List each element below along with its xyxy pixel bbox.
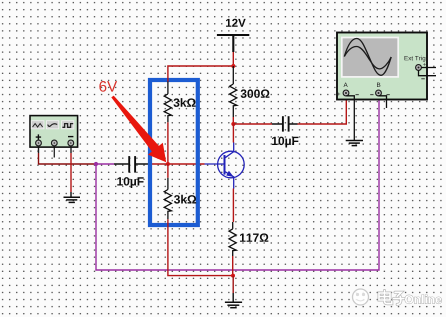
scope screen — [342, 38, 398, 77]
wire: R2 bottom to emitter ground rail (red) — [168, 219, 233, 275]
FG plus label — [36, 134, 41, 139]
wire: 12V to R1 top (red) — [168, 66, 233, 82]
wire: cap to base junction (red) — [149, 163, 168, 165]
resistor R1 zigzag — [164, 94, 171, 122]
function generator XFG1 body — [30, 116, 78, 148]
wire: emitter down to R4 (red) — [232, 189, 234, 223]
wire: junction to output cap (red) — [233, 123, 272, 125]
FG button sine wave — [47, 121, 59, 129]
label R4 value 117 — [240, 233, 268, 241]
scope Ext Trig stubs — [419, 68, 437, 76]
scope Ext terminal — [416, 65, 422, 71]
wire: FG minus to ground (red) — [70, 146, 72, 153]
watermark logo — [353, 289, 369, 305]
wire: R3 to collector junction (red) — [232, 117, 234, 124]
wire: junction to ground (black) — [232, 276, 234, 293]
FG minus label — [68, 136, 73, 138]
watermark text: white pass — [379, 291, 406, 305]
label C2 value 10uF — [272, 137, 298, 148]
resistor R3 300 ohm — [230, 66, 237, 117]
scope label A — [344, 83, 348, 87]
scope terminal A — [343, 90, 349, 96]
capacitor C1 10uF input — [114, 156, 149, 173]
wire: scope A minus to ground (black) — [346, 96, 354, 141]
ground under function generator — [64, 197, 81, 202]
node: emitter ground junction dot — [231, 274, 235, 278]
wire: FG middle stub — [53, 146, 55, 158]
power VCC 12V symbol — [217, 35, 249, 52]
watermark text: outline pass — [379, 291, 406, 305]
wire: cap to scope A (red) — [298, 98, 347, 124]
scope label Ext Trig — [405, 56, 427, 62]
FG terminal - — [68, 140, 74, 146]
wire: R1 bottom to base junction (red) — [167, 122, 169, 164]
label R2 value 3k — [174, 195, 196, 204]
resistor R4 117 ohm — [229, 222, 236, 256]
node: purple junction on input rail — [94, 162, 98, 166]
ground under emitter — [225, 302, 242, 307]
blue highlight box — [150, 80, 198, 225]
node: base junction dot — [166, 162, 170, 166]
scope +/- marks — [337, 93, 340, 96]
annotation 6V — [99, 81, 117, 92]
wire: R4 to ground junction (red) — [232, 256, 234, 276]
FG terminal common — [51, 140, 57, 146]
transistor Q1 — [205, 143, 245, 189]
wire: base junction down to R2 (red) — [167, 164, 169, 178]
wire: junction down to collector (red) — [232, 124, 234, 143]
label R1 value 3k — [173, 98, 195, 107]
wire: base rail junction to transistor base (red) — [168, 163, 205, 165]
scope trace B — [344, 46, 391, 68]
wire: VCC lead to junction (red) — [232, 52, 234, 66]
FG button triangle wave — [31, 121, 44, 129]
scope label B — [377, 83, 380, 87]
wire: purple net B-channel — [96, 98, 379, 270]
ground under scope — [346, 141, 363, 146]
label C1 value 10uF — [117, 177, 143, 188]
annotation red arrow — [111, 96, 166, 163]
node: VCC junction dot — [231, 64, 235, 68]
wire: scope B minus stub — [379, 96, 387, 108]
oscilloscope XSC1 body — [337, 33, 427, 100]
capacitor C2 10uF output — [272, 116, 298, 131]
scope terminal B — [376, 90, 382, 96]
resistor R2 3k bottom: leads and zigzag — [164, 178, 171, 219]
wire: input rail FG+ down and right (dark red) — [38, 146, 40, 153]
FG button square wave — [62, 121, 74, 129]
label R3 value 300 — [241, 89, 270, 98]
transistor emitter arrow — [226, 171, 234, 177]
resistor R1 3k top: leads — [164, 82, 171, 123]
label 12V — [226, 19, 246, 27]
watermark Online — [405, 295, 441, 304]
scope trace A — [344, 38, 391, 75]
FG terminal + — [36, 140, 42, 146]
wire: purple segment dot to cap — [96, 163, 114, 165]
node: collector junction dot — [231, 122, 235, 126]
